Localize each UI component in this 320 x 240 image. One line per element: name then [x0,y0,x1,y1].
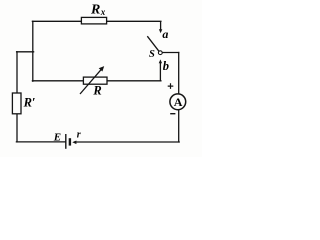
svg-text:S: S [149,49,155,60]
wire bottom left [16,141,65,143]
ammeter A [168,83,186,113]
wire switch output horizontal [162,52,178,54]
wire bottom right [75,141,180,143]
resistor Rs [81,2,106,24]
node b contact [159,59,169,81]
rheostat R [80,66,107,98]
node a contact [159,21,169,41]
wire middle horizontal [32,80,161,82]
wire left outer vertical [16,52,18,142]
svg-text:b: b [163,59,169,73]
svg-text:E: E [53,132,61,144]
wire right vertical [178,53,180,142]
battery E r [53,130,81,149]
svg-text:A: A [174,95,183,109]
wire left inner vertical [32,21,34,81]
svg-text:R′: R′ [23,96,36,110]
switch S [147,36,162,60]
wire R-prime branch [17,51,34,53]
resistor R-prime [12,93,35,114]
svg-text:a: a [162,27,168,41]
svg-text:r: r [77,130,81,141]
svg-text:R: R [90,2,100,17]
svg-text:R: R [92,84,101,98]
wire top [32,20,161,22]
svg-text:x: x [100,7,106,17]
